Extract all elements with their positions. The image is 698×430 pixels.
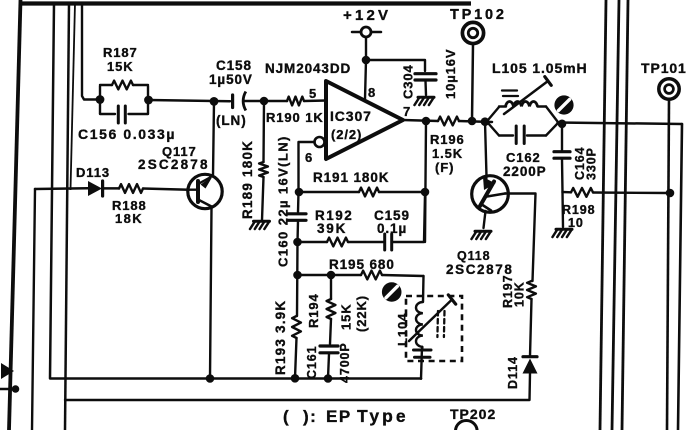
node Q117 emitter bottom	[206, 374, 215, 383]
node R198 right	[666, 189, 675, 198]
pin 8 label	[368, 85, 376, 100]
capacitor C160	[288, 192, 306, 242]
diode D114	[523, 357, 538, 400]
svg-text:39K: 39K	[317, 221, 347, 236]
label R192 value	[315, 208, 353, 236]
wire +12V down	[365, 38, 367, 61]
wire pin 8	[365, 60, 366, 99]
label C156 value	[78, 126, 176, 142]
node +12V terminal	[352, 27, 381, 37]
resistor R195	[298, 271, 424, 280]
wire C164 to ground	[561, 192, 564, 227]
node R189 top	[260, 97, 269, 106]
pin 6 bubble + wire	[299, 137, 325, 188]
wire left edge stub	[0, 388, 16, 391]
wire top border	[22, 1, 471, 5]
svg-text:C161: C161	[305, 346, 319, 379]
inductor L105 core	[502, 91, 518, 97]
pin 5 label	[309, 86, 317, 101]
adjust screw L104	[382, 282, 402, 302]
label R187 value	[103, 45, 138, 74]
inductor L105 box right	[546, 107, 558, 136]
wire branch from bottom (D113 feed)	[32, 189, 35, 430]
wire R187 to C158	[149, 100, 231, 101]
label R191 value	[313, 170, 389, 185]
svg-text:D113: D113	[76, 165, 110, 180]
svg-text:TP101: TP101	[641, 60, 687, 76]
svg-text:10K: 10K	[513, 281, 527, 307]
label IC307	[330, 108, 372, 142]
test point TP102	[462, 22, 483, 43]
inductor L104 arrow	[409, 295, 456, 341]
capacitor C159	[385, 194, 425, 250]
capacitor C162	[499, 126, 546, 144]
capacitor C156	[100, 106, 148, 123]
label C161 value	[305, 342, 352, 383]
wire Q117 emitter	[210, 208, 212, 379]
inductor L104 bottom contact	[414, 350, 432, 357]
adjust screw L105	[554, 95, 573, 114]
resistor R189	[259, 101, 268, 220]
label Q117	[138, 144, 210, 172]
label D114	[506, 356, 520, 389]
node C161 bottom	[324, 374, 333, 383]
inductor L105 arrow	[504, 77, 551, 114]
resistor R188	[119, 184, 143, 193]
label R193 value	[273, 300, 288, 375]
node TP102 junction	[468, 117, 477, 126]
label R196 value	[430, 132, 465, 175]
label R194 value	[339, 295, 370, 332]
label C159 value	[374, 208, 410, 236]
wire op-amp output	[403, 120, 438, 121]
resistor R198	[563, 188, 669, 197]
node R187 right	[144, 96, 153, 105]
node arrow at left edge	[1, 363, 14, 379]
node R193 bottom	[291, 374, 300, 383]
svg-text:R187: R187	[103, 45, 138, 60]
transistor Q117	[188, 174, 222, 208]
svg-text:EP: EP	[326, 407, 352, 426]
wire right bus line 3	[622, 0, 628, 430]
node feedback	[421, 188, 430, 197]
svg-text:7: 7	[403, 104, 411, 119]
label +12V	[343, 7, 391, 24]
svg-text:Q118: Q118	[457, 249, 491, 263]
wire C158 to R190	[244, 100, 287, 103]
label D113	[76, 165, 110, 180]
svg-text:D114: D114	[506, 356, 520, 389]
node R195 junction	[293, 271, 302, 280]
wire lower border rail	[65, 399, 529, 401]
label NJM2043DD	[265, 61, 351, 76]
svg-text:15K: 15K	[107, 59, 134, 74]
resistor R190	[287, 97, 304, 106]
svg-text:C158: C158	[216, 58, 252, 73]
svg-text:6: 6	[305, 150, 313, 165]
label R189 value	[240, 140, 255, 219]
optional box L104 (dashed)	[406, 296, 462, 361]
svg-text:2SC2878: 2SC2878	[138, 157, 210, 172]
wire TP102 down	[472, 44, 473, 120]
node junction on left bus	[12, 385, 20, 393]
label C158 LN note	[216, 113, 247, 128]
label Q118	[446, 249, 514, 277]
svg-text:0.1µ: 0.1µ	[377, 221, 407, 236]
svg-text:2200P: 2200P	[503, 164, 547, 179]
resistor R191	[299, 188, 425, 197]
svg-text:(F): (F)	[435, 160, 454, 175]
svg-text:4700P: 4700P	[338, 342, 352, 383]
resistor R193	[292, 242, 301, 378]
wire R196 to L105	[459, 121, 492, 122]
svg-text:R194: R194	[306, 293, 321, 328]
svg-text:(LN): (LN)	[216, 113, 247, 128]
wire right bus line 2	[612, 0, 619, 430]
svg-text:C160 22µ 16V(LN): C160 22µ 16V(LN)	[276, 135, 291, 267]
svg-text:(22K): (22K)	[354, 295, 369, 332]
label R197 value	[501, 275, 527, 308]
ground R189	[250, 221, 270, 229]
wire Q118 collector	[485, 122, 487, 177]
svg-text:15K: 15K	[339, 303, 354, 330]
svg-text:18K: 18K	[115, 211, 143, 226]
svg-text:5: 5	[309, 86, 317, 101]
label R188 value	[112, 198, 147, 226]
inductor L105 box left	[488, 107, 499, 136]
inductor L105	[499, 101, 546, 106]
wire L105 to corner	[558, 123, 683, 125]
node C164 top	[558, 120, 567, 129]
pin 6 label	[305, 150, 313, 165]
wire right bus line 1	[600, 0, 606, 430]
wire left bus line 2 + bottom rail	[50, 3, 421, 379]
label R198 value	[562, 203, 595, 230]
wire from top border to R187	[82, 4, 96, 100]
resistor R187	[100, 81, 148, 114]
svg-text:C162: C162	[506, 150, 541, 165]
wire left bus line 3	[65, 3, 69, 430]
svg-text:R198: R198	[562, 203, 595, 217]
ground Q118	[472, 231, 492, 239]
node R194 top	[327, 271, 336, 280]
capacitor C304	[415, 74, 436, 95]
svg-text:R193 3.9K: R193 3.9K	[273, 300, 288, 375]
label TP202	[450, 406, 496, 422]
svg-text:):: ):	[303, 407, 317, 426]
node R191 left	[295, 188, 304, 197]
wire R188 to Q117	[143, 189, 189, 190]
test point TP101	[659, 79, 679, 99]
wire Q118 emitter	[484, 211, 486, 228]
label C158 value	[209, 58, 253, 87]
wire R197 to D114	[530, 299, 532, 356]
svg-text:(: (	[283, 407, 290, 426]
ground C304	[415, 97, 435, 105]
inductor L104	[416, 302, 423, 349]
ground C164/R198	[553, 229, 573, 237]
wire output column	[425, 121, 426, 242]
op-amp U IC307	[326, 81, 403, 159]
label L104	[395, 313, 410, 346]
wire Q118 base to R197	[505, 194, 536, 282]
svg-text:C304: C304	[401, 64, 416, 99]
diode D113	[88, 181, 103, 196]
transistor Q118	[472, 176, 509, 213]
label C304	[401, 64, 416, 99]
wire TP101 down	[667, 99, 669, 430]
resistor R196	[438, 117, 459, 126]
svg-text:+12V: +12V	[343, 7, 391, 24]
label EP type note	[283, 406, 409, 426]
svg-text:L105 1.05mH: L105 1.05mH	[492, 60, 588, 76]
svg-text:R189 180K: R189 180K	[240, 140, 255, 219]
svg-text:TP102: TP102	[450, 7, 507, 23]
wire to C304	[366, 60, 425, 71]
wire D113 to R188	[103, 187, 119, 190]
node C158 left	[210, 97, 219, 106]
wire R195 to rail (L104 column)	[421, 276, 424, 379]
resistor R192	[298, 238, 384, 247]
wire Q117 collector	[213, 101, 214, 175]
resistor R194	[327, 275, 336, 344]
svg-text:NJM2043DD: NJM2043DD	[265, 61, 351, 76]
svg-text:C156 0.033µ: C156 0.033µ	[78, 126, 176, 142]
node output	[422, 117, 431, 126]
svg-text:1.5K: 1.5K	[432, 146, 463, 161]
svg-text:330P: 330P	[585, 147, 599, 180]
wire Q117 base	[189, 188, 198, 190]
node R192 junction	[293, 238, 302, 247]
node Q118 collector junction	[481, 117, 490, 126]
label C162 value	[503, 150, 547, 179]
test point TP202	[456, 421, 478, 430]
label C304 value	[443, 49, 458, 99]
svg-text:10µ16V: 10µ16V	[443, 49, 458, 99]
svg-text:L104: L104	[395, 313, 410, 346]
label R195 value	[329, 257, 395, 272]
wire left bus line 1 (thick)	[9, 0, 21, 430]
svg-text:8: 8	[368, 85, 376, 100]
svg-text:R190 1K: R190 1K	[266, 110, 324, 125]
label TP101	[641, 60, 687, 76]
capacitor C164	[554, 124, 570, 192]
svg-text:IC307: IC307	[330, 108, 372, 124]
label R190 value	[266, 110, 324, 125]
label L105 value	[492, 60, 588, 76]
inductor L104 core	[437, 311, 444, 337]
capacitor C161	[320, 346, 338, 378]
wire left bus line 4	[71, 3, 76, 190]
label R194	[306, 293, 321, 328]
svg-text:Type: Type	[357, 406, 409, 426]
node R187 left	[96, 95, 105, 104]
svg-text:1µ50V: 1µ50V	[209, 72, 253, 87]
label C160 value	[276, 135, 291, 267]
wire rail1 right corner	[420, 378, 422, 380]
svg-text:(2/2): (2/2)	[331, 127, 362, 142]
pin 7 label	[403, 104, 411, 119]
svg-text:R195 680: R195 680	[329, 257, 395, 272]
capacitor C158	[233, 92, 246, 111]
svg-text:R196: R196	[430, 132, 465, 147]
label TP102	[450, 7, 507, 23]
svg-text:R191 180K: R191 180K	[313, 170, 389, 185]
wire R190 to pin5	[304, 99, 326, 102]
node +12V junction	[362, 56, 371, 65]
label C164 value	[573, 147, 599, 180]
wire output right corner down	[678, 124, 682, 430]
svg-text:TP202: TP202	[450, 406, 496, 422]
resistor R197	[527, 281, 536, 299]
wire D113 branch	[35, 187, 88, 190]
